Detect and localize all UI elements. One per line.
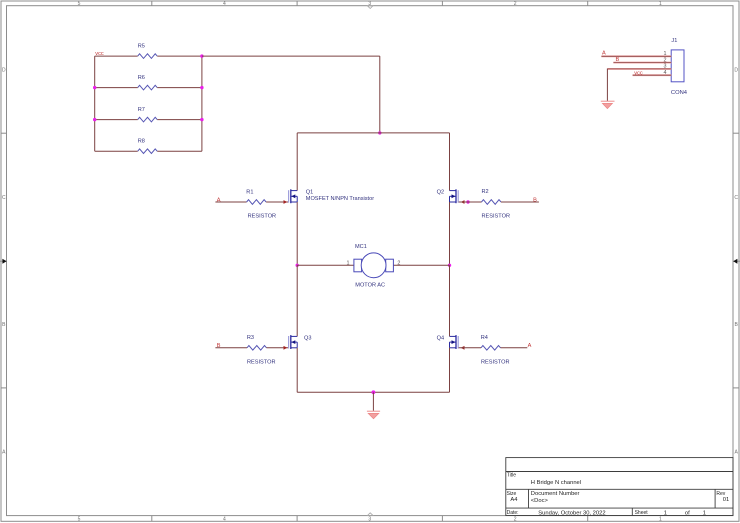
svg-text:RESISTOR: RESISTOR — [481, 359, 510, 365]
ground (bottom rail) — [367, 411, 380, 419]
svg-text:5: 5 — [78, 516, 81, 522]
wire B to R3 — [215, 347, 247, 349]
svg-text:3: 3 — [368, 516, 371, 522]
svg-text:01: 01 — [723, 497, 729, 503]
transistor Q4 — [450, 335, 459, 349]
svg-text:3: 3 — [368, 1, 371, 7]
svg-text:Sheet: Sheet — [635, 510, 649, 516]
svg-text:CON4: CON4 — [671, 90, 688, 96]
wire vcc feed vertical — [379, 56, 381, 133]
wire right rail bottom (Q4 source down) — [449, 348, 451, 393]
wire J1 pin 1 (net A) — [601, 55, 671, 57]
wire left rail bottom (Q3 source down) — [296, 348, 298, 393]
svg-text:MOSFET N/NPN Transistor: MOSFET N/NPN Transistor — [306, 196, 374, 202]
wire ladder right vertical — [201, 56, 203, 151]
junction ladder right R7 — [200, 118, 203, 121]
node bridge top junction — [378, 131, 381, 134]
svg-text:D: D — [2, 68, 6, 74]
wire left rail upper (to Q1 drain) — [296, 133, 298, 191]
svg-text:H Bridge N channel: H Bridge N channel — [531, 480, 581, 486]
node motor right junction — [448, 264, 451, 267]
wire R6 row — [95, 87, 202, 89]
wire R7 row — [95, 119, 202, 121]
resistor R6 — [138, 85, 157, 90]
wire R8 row — [95, 150, 202, 152]
pin marker Q1 gate — [284, 200, 288, 204]
wire motor left pin — [297, 264, 354, 266]
junction ladder left R7 — [93, 118, 96, 121]
wire left rail lower (motor node to Q3 drain) — [296, 265, 298, 336]
svg-text:Q1: Q1 — [306, 190, 313, 196]
svg-text:MOTOR AC: MOTOR AC — [355, 282, 385, 288]
resistor R8 — [138, 149, 157, 154]
resistor R3 — [247, 346, 266, 351]
svg-text:R1: R1 — [246, 189, 253, 195]
svg-text:5: 5 — [78, 1, 81, 7]
svg-text:1: 1 — [659, 1, 662, 7]
junction Q2 gate — [466, 200, 469, 203]
svg-text:1: 1 — [347, 261, 350, 267]
svg-text:RESISTOR: RESISTOR — [482, 214, 511, 220]
svg-text:R8: R8 — [138, 139, 145, 145]
svg-text:A: A — [602, 51, 606, 57]
svg-text:2: 2 — [514, 1, 517, 7]
svg-text:2: 2 — [514, 516, 517, 522]
svg-text:R3: R3 — [247, 335, 254, 341]
wire right rail upper (to Q2 drain) — [449, 133, 451, 191]
svg-text:Sunday, October 30, 2022: Sunday, October 30, 2022 — [538, 510, 605, 516]
wire ladder left vertical — [94, 56, 96, 151]
svg-text:1: 1 — [664, 510, 667, 516]
junction ladder right R5 — [200, 54, 203, 57]
svg-text:MC1: MC1 — [355, 244, 367, 250]
wire J1 pin 2 (net B) — [613, 62, 671, 64]
transistor Q3 — [289, 335, 298, 349]
svg-text:Q3: Q3 — [304, 335, 311, 341]
svg-text:C: C — [734, 195, 738, 201]
wire A to R1 — [215, 201, 246, 203]
svg-text:R4: R4 — [481, 335, 488, 341]
svg-text:Document Number: Document Number — [531, 491, 580, 497]
svg-text:B: B — [616, 57, 620, 63]
svg-text:1: 1 — [659, 516, 662, 522]
wire ground stem — [372, 392, 374, 411]
wire R5 row — [95, 55, 202, 57]
svg-text:C: C — [2, 195, 6, 201]
pin marker Q3 gate — [284, 346, 288, 350]
junction ladder left R6 — [93, 86, 96, 89]
svg-text:A: A — [528, 343, 532, 349]
wire J1 pin 4 (net vcc) — [633, 74, 672, 76]
wire J1 pin 3 horizontal — [607, 68, 671, 70]
wire R1 to Q1 gate — [266, 201, 288, 203]
svg-text:4: 4 — [223, 516, 226, 522]
transistor Q1 — [289, 189, 298, 203]
ground (J1 pin 3) — [601, 101, 615, 108]
svg-text:4: 4 — [223, 1, 226, 7]
svg-text:R6: R6 — [138, 75, 145, 81]
svg-text:J1: J1 — [671, 38, 677, 44]
svg-text:R5: R5 — [138, 43, 145, 49]
svg-text:Q2: Q2 — [437, 190, 444, 196]
wire right rail mid (Q2 source to motor node) — [449, 202, 451, 265]
wire J1 pin 3 vertical to ground — [606, 69, 608, 101]
resistor R5 — [138, 54, 157, 59]
svg-text:vcc: vcc — [95, 51, 104, 57]
motor MC1 — [354, 253, 394, 278]
svg-text:D: D — [734, 68, 738, 74]
pin marker Q4 gate — [461, 346, 465, 350]
svg-text:RESISTOR: RESISTOR — [247, 359, 276, 365]
svg-text:<Doc>: <Doc> — [531, 498, 549, 504]
wire bridge top rail — [297, 132, 449, 134]
svg-text:of: of — [685, 510, 690, 516]
node motor left junction — [296, 264, 299, 267]
resistor R4 — [481, 346, 500, 351]
svg-text:R2: R2 — [482, 189, 489, 195]
wire R3 to Q3 gate — [267, 347, 289, 349]
wire Q2 gate to R2 — [459, 201, 482, 203]
svg-text:2: 2 — [397, 261, 400, 267]
connector J1 body — [671, 50, 684, 82]
transistor Q2 — [450, 189, 459, 203]
svg-text:1: 1 — [703, 510, 706, 516]
svg-text:Q4: Q4 — [437, 335, 444, 341]
svg-text:R7: R7 — [138, 107, 145, 113]
wire R2 to B — [501, 201, 539, 203]
pin marker Q2 gate — [461, 200, 465, 204]
wire R4 to A — [501, 347, 528, 349]
wire bottom rail — [297, 391, 449, 393]
wire vcc feed horizontal — [202, 55, 380, 57]
wire left rail mid (Q1 source to motor node) — [296, 202, 298, 265]
svg-text:B: B — [533, 197, 537, 203]
resistor R7 — [138, 117, 157, 122]
svg-text:A4: A4 — [510, 497, 518, 503]
resistor R2 — [482, 200, 501, 205]
title block — [506, 458, 733, 516]
wire motor right pin — [394, 264, 450, 266]
node ground junction — [372, 390, 376, 394]
wire Q4 gate to R4 — [459, 347, 481, 349]
resistor R1 — [247, 200, 266, 205]
svg-text:RESISTOR: RESISTOR — [248, 214, 277, 220]
svg-text:Title: Title — [507, 473, 516, 479]
junction ladder right R6 — [200, 86, 203, 89]
svg-text:Date:: Date: — [507, 510, 519, 516]
wire right rail lower (motor node to Q4 drain) — [449, 265, 451, 336]
svg-text:vcc: vcc — [634, 70, 643, 76]
